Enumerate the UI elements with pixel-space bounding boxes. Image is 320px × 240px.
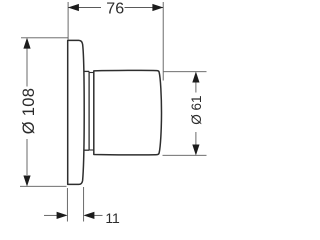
svg-text:Ø 61: Ø 61 [189, 95, 204, 124]
dim 11 arrow pointing left [83, 212, 94, 219]
dim 76 arrow right [152, 4, 163, 11]
dim 76 arrow left [68, 4, 79, 11]
dim 76 line left segment [68, 7, 101, 9]
dim 76 right extension line [162, 2, 164, 81]
dim 108 arrow down [23, 176, 30, 187]
svg-text:76: 76 [106, 1, 124, 18]
sleeve bottom edge [84, 149, 89, 151]
dim 11 line left segment [44, 214, 57, 216]
dim 61 line upper segment [195, 82, 197, 93]
dim 11 left extension line [66, 188, 68, 222]
dim 108 line lower segment [26, 139, 28, 175]
dim 61 line lower segment [195, 132, 197, 145]
sleeve front edge [88, 71, 90, 150]
dim 61 arrow down [192, 145, 199, 156]
dim 76 line right segment [125, 7, 164, 9]
dim 108 line upper segment [26, 48, 28, 87]
dim 11 arrow pointing right [57, 212, 68, 219]
dim 108 bottom extension line [20, 185, 67, 187]
handle hub step top [89, 72, 94, 74]
handle hub step bottom [89, 149, 94, 151]
dim 11 line right segment [94, 214, 103, 216]
svg-text:11: 11 [105, 210, 120, 226]
dim 108 top extension line [21, 37, 69, 39]
handle grip outline [94, 70, 162, 155]
dim 76 left extension line [67, 2, 69, 40]
sleeve top edge [84, 70, 89, 72]
dim 11 right extension line [83, 187, 85, 222]
escutcheon plate profile (side view) [68, 40, 85, 184]
dim 61 top extension line [164, 71, 207, 73]
dim 61 arrow up [192, 72, 199, 83]
dim 108 arrow up [23, 38, 30, 49]
dim 61 bottom extension line [163, 154, 207, 156]
svg-text:Ø 108: Ø 108 [20, 88, 38, 134]
